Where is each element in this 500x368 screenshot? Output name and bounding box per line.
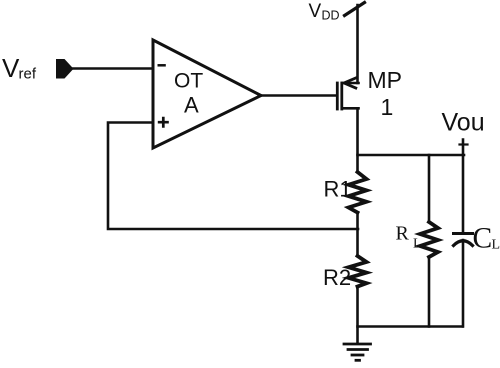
svg-text:V: V [309, 1, 322, 22]
svg-text:1: 1 [381, 94, 394, 120]
svg-text:R1: R1 [324, 177, 352, 202]
svg-text:L: L [492, 238, 500, 253]
svg-text:C: C [473, 223, 493, 255]
svg-text:OT: OT [174, 70, 203, 93]
svg-text:MP: MP [368, 67, 403, 93]
svg-text:R: R [396, 223, 410, 245]
svg-text:DD: DD [322, 9, 340, 23]
svg-text:ref: ref [19, 66, 37, 83]
svg-text:V: V [2, 53, 20, 83]
svg-text:A: A [184, 93, 199, 118]
svg-text:Vou: Vou [442, 109, 485, 137]
svg-text:R2: R2 [323, 265, 351, 290]
svg-text:L: L [413, 237, 422, 252]
